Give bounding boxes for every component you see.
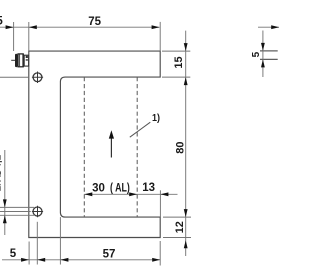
svg-text:75: 75	[88, 16, 101, 28]
svg-text:5: 5	[251, 51, 262, 57]
svg-text:2x ∅4,2: 2x ∅4,2	[0, 154, 4, 191]
svg-text:15: 15	[173, 56, 185, 68]
svg-text:12: 12	[174, 221, 186, 233]
svg-text:80: 80	[174, 141, 186, 153]
svg-text:13: 13	[142, 182, 155, 194]
svg-text:( AL): ( AL)	[110, 183, 130, 195]
svg-text:1): 1)	[152, 112, 160, 124]
svg-text:57: 57	[103, 248, 116, 260]
svg-text:5: 5	[10, 248, 17, 260]
svg-text:30: 30	[92, 183, 105, 195]
